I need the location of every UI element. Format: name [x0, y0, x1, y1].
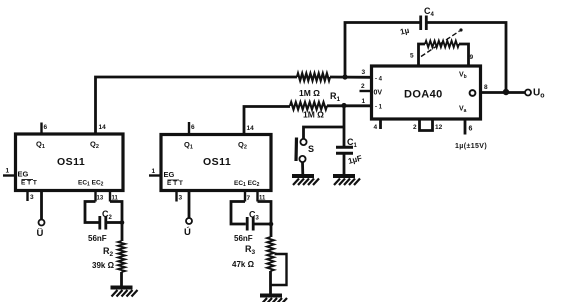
- wire: junction down to C1, branch left to switch S: [343, 106, 346, 147]
- pin 1 left stub: [149, 174, 161, 176]
- svg-text:EG: EG: [164, 170, 175, 179]
- svg-text:EC1 EC2: EC1 EC2: [234, 180, 260, 188]
- svg-text:- 1: - 1: [375, 105, 383, 111]
- pin 2 stub: [360, 90, 372, 92]
- node: C2 / R2 junction: [120, 220, 125, 225]
- svg-text:1µ(±15V): 1µ(±15V): [455, 143, 487, 150]
- svg-text:3: 3: [30, 194, 34, 201]
- svg-text:1µF: 1µF: [347, 154, 363, 166]
- input terminal U (left): [40, 191, 43, 220]
- svg-text:Va: Va: [459, 106, 467, 115]
- svg-text:Ú: Ú: [184, 226, 191, 238]
- svg-text:0V: 0V: [374, 90, 383, 97]
- wire R2 to ground: [120, 272, 123, 287]
- svg-text:2: 2: [413, 124, 417, 131]
- wiper loop of R3: [271, 254, 287, 285]
- wire: C1 to ground: [343, 155, 346, 176]
- capacitor C2 56nF loop: [85, 202, 122, 244]
- wire: C3 node down to R3: [270, 224, 273, 237]
- resistor R1 top 1M: [297, 73, 341, 103]
- pin 6 top left: [188, 122, 190, 135]
- wire: switch to ground: [301, 162, 304, 175]
- svg-text:7: 7: [247, 195, 251, 202]
- svg-text:1: 1: [362, 98, 366, 105]
- wire: feedback from output node up and across the top: [345, 23, 421, 79]
- svg-text:14: 14: [247, 125, 255, 132]
- pins 13 / 11: [94, 191, 96, 202]
- svg-text:8: 8: [484, 84, 488, 91]
- svg-text:Q1: Q1: [184, 140, 193, 151]
- capacitor C3 56nF loop: [231, 202, 271, 244]
- svg-text:Uo: Uo: [533, 88, 545, 100]
- svg-text:OS11: OS11: [203, 156, 231, 168]
- svg-text:R3: R3: [245, 244, 256, 256]
- svg-text:Q1: Q1: [36, 140, 45, 151]
- pin 1 left stub: [3, 174, 16, 176]
- svg-text:6: 6: [191, 124, 195, 131]
- wire: left OS11 Q2 (pin 14) up and right to R1 top resistor: [96, 77, 298, 134]
- svg-text:9: 9: [470, 54, 474, 61]
- capacitor C1 1uF: [336, 137, 363, 166]
- pins 7 / 11: [244, 191, 246, 202]
- wire: C2 node down to R2: [121, 223, 124, 242]
- svg-text:5: 5: [410, 53, 414, 60]
- DOA40 bottom notch pins 2/12: [420, 119, 433, 131]
- wire R3 to ground: [269, 271, 272, 295]
- DOA40 bottom pin 4: [379, 119, 382, 129]
- svg-text:C2: C2: [102, 209, 113, 221]
- svg-text:1M Ω: 1M Ω: [299, 88, 320, 98]
- svg-text:Vb: Vb: [459, 72, 467, 81]
- svg-text:12: 12: [435, 124, 443, 131]
- svg-text:1M Ω: 1M Ω: [303, 110, 324, 120]
- node: junction feedback / inverting input: [342, 74, 347, 79]
- svg-text:EC1 EC2: EC1 EC2: [78, 180, 104, 188]
- svg-text:OS11: OS11: [57, 156, 85, 168]
- DOA40 bottom pin 6 supply: [464, 119, 467, 135]
- svg-text:1: 1: [6, 168, 10, 175]
- svg-text:1: 1: [152, 168, 156, 175]
- node: C3 / R3 junction: [269, 222, 274, 227]
- svg-text:EG: EG: [18, 170, 29, 179]
- input terminal U (middle): [188, 191, 191, 219]
- svg-text:Q2: Q2: [90, 140, 99, 151]
- bottom pin 3 stub: [175, 191, 177, 202]
- wire: middle OS11 Q2 up and right to R1 bottom resistor: [244, 107, 290, 135]
- svg-text:47k Ω: 47k Ω: [232, 260, 255, 269]
- capacitor C4 1u (feedback): [399, 6, 434, 37]
- svg-text:6: 6: [469, 126, 473, 133]
- potentiometer above DOA40 (pins 5, 9): [410, 28, 474, 66]
- wire: R1 top to DOA40 pin 3: [330, 76, 372, 79]
- svg-text:56nF: 56nF: [88, 234, 107, 243]
- svg-text:4: 4: [374, 124, 378, 131]
- svg-text:39k Ω: 39k Ω: [92, 261, 115, 270]
- svg-text:- 4: - 4: [375, 77, 383, 83]
- IC OS11 (left): [16, 134, 124, 191]
- svg-text:3: 3: [179, 195, 183, 202]
- svg-text:Q2: Q2: [238, 140, 247, 151]
- svg-text:3: 3: [362, 69, 366, 76]
- IC OS11 (middle): [161, 135, 271, 191]
- svg-text:R1: R1: [330, 91, 341, 103]
- svg-text:1µ: 1µ: [399, 26, 410, 37]
- svg-text:6: 6: [44, 124, 48, 131]
- op-amp U1 DOA40: [372, 66, 481, 119]
- ground (C1): [333, 174, 355, 178]
- svg-text:E T T: E T T: [167, 180, 183, 187]
- svg-text:DOA40: DOA40: [404, 89, 443, 101]
- ground (R2): [111, 286, 133, 290]
- bottom pin 3 stub: [26, 191, 28, 202]
- resistor 1M bottom: [290, 102, 327, 119]
- ground (R3): [260, 294, 282, 298]
- svg-text:13: 13: [97, 196, 104, 202]
- switch S: [296, 138, 314, 163]
- svg-text:E T T: E T T: [21, 180, 37, 187]
- svg-text:Ü: Ü: [37, 228, 44, 239]
- svg-text:S: S: [308, 144, 314, 154]
- svg-text:R2: R2: [103, 246, 114, 258]
- ground (switch): [292, 174, 314, 178]
- terminal Uo: [525, 88, 545, 100]
- node: junction to S / C1: [341, 103, 346, 108]
- svg-text:2: 2: [361, 83, 365, 90]
- wire: bottom 1M to DOA40 pin 1: [327, 104, 372, 107]
- svg-text:14: 14: [99, 124, 107, 131]
- pin 6 top left: [40, 123, 42, 135]
- svg-text:56nF: 56nF: [234, 234, 253, 243]
- wire: output to terminal Uo: [481, 91, 526, 94]
